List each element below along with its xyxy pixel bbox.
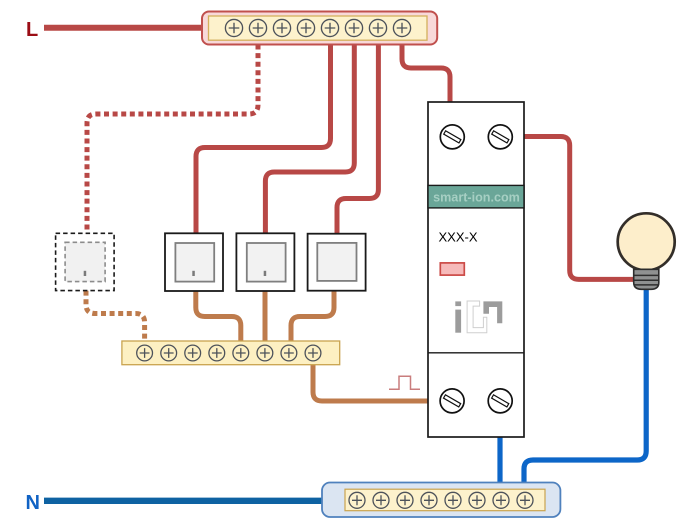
svg-text:smart-ion.com: smart-ion.com <box>433 190 520 204</box>
svg-text:N: N <box>26 492 40 514</box>
svg-text:XXX-X: XXX-X <box>439 230 478 245</box>
svg-text:L: L <box>26 19 38 41</box>
